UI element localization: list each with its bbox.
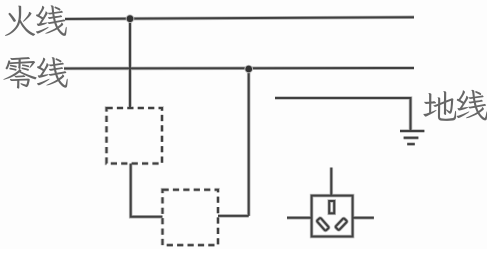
label 零线 (neutral wire) — [3, 57, 67, 89]
junction dot on live wire — [126, 14, 135, 23]
junction dot on neutral wire — [244, 65, 253, 74]
circuit halo pass (scan softness) — [64, 17, 424, 245]
label 地线 (earth wire) — [423, 90, 487, 121]
label 火线 (live wire) — [5, 5, 67, 36]
circuit core pass — [64, 17, 424, 245]
